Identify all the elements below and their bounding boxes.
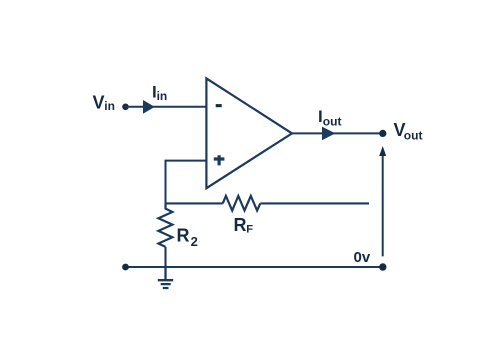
svg-text:in: in: [104, 99, 115, 113]
node 0v rail left dot: [122, 264, 129, 271]
svg-text:2: 2: [191, 234, 198, 249]
node Vout dot: [379, 130, 386, 137]
current arrow Iin: [143, 100, 155, 114]
wire feedback node to RF left lead: [166, 202, 223, 204]
svg-text:out: out: [323, 114, 342, 128]
wire 0v rail: [126, 266, 383, 268]
wire R2 bottom lead to 0v rail: [164, 247, 166, 267]
wire RF right lead to open end: [260, 202, 369, 204]
wire output: op-amp apex to Vout node: [292, 132, 383, 134]
wire input: Vin dot to op-amp inverting input: [126, 106, 207, 108]
node 0v rail right dot: [379, 263, 386, 270]
wire non-inverting input: left then down to feedback node: [166, 161, 207, 204]
svg-text:0v: 0v: [354, 249, 371, 266]
measurement arrow Vout-to-0v (vertical, head up): [382, 152, 384, 256]
svg-text:in: in: [157, 89, 168, 103]
resistor R2 (vertical zigzag): [158, 203, 172, 247]
node Vin input terminal dot: [122, 104, 129, 111]
svg-text:F: F: [246, 224, 253, 236]
op-amp non-inverting pin mark (+): [214, 155, 225, 165]
resistor RF (horizontal zigzag): [223, 196, 261, 211]
svg-text:R: R: [234, 215, 247, 235]
ground symbol: [158, 267, 173, 288]
current arrow Iout: [322, 127, 335, 141]
op-amp inverting pin mark (-): [216, 104, 222, 107]
svg-text:V: V: [93, 93, 105, 113]
op-amp U1 triangle: [206, 78, 292, 188]
svg-text:out: out: [404, 129, 423, 143]
svg-text:R: R: [177, 226, 190, 246]
